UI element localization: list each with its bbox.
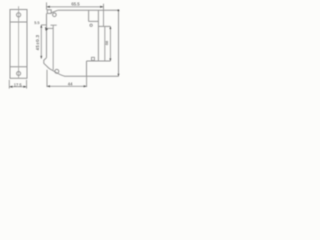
arrowheads 44 dim (47, 85, 50, 87)
screw hole circle (90, 24, 92, 26)
svg-text:44: 44 (68, 82, 73, 87)
cavity wall lower (104, 26, 106, 61)
toggle pivot circle (53, 13, 57, 17)
tiny square detail (92, 57, 95, 60)
terminal wall x=98.4 (97, 10, 99, 61)
5.5 dim line (41, 24, 46, 26)
top hole circle (17, 13, 21, 17)
vertical centerline (18, 6, 20, 78)
svg-text:17.5: 17.5 (14, 82, 23, 87)
step line y=26.4 (98, 25, 110, 27)
top face (58, 9, 119, 11)
rear step vertical (86, 61, 88, 76)
arrowheads height dim x=118.5 (117, 9, 119, 11)
small circle on bottom outline (55, 69, 59, 73)
rear step horizontal (87, 60, 111, 62)
toggle lever rectangle (47, 10, 51, 14)
svg-text:5.5: 5.5 (34, 21, 39, 25)
bottom-left curved outline (47, 66, 65, 76)
extension line left for 17.5 (8, 80, 10, 89)
extension line left of 65.5 dim (46, 2, 48, 9)
svg-text:45±0.3: 45±0.3 (35, 34, 40, 50)
inner vertical dim line (109, 26, 111, 61)
right edge / height dim line (118, 10, 120, 76)
front (left) face (46, 13, 48, 57)
svg-text:68: 68 (105, 41, 109, 45)
interior step line (47, 27, 54, 29)
clip channel top line (51, 24, 57, 26)
arrowheads inner vertical dim x=110.4 (109, 26, 111, 29)
dimension line 17.5 (9, 86, 26, 88)
arrowheads 65.5 (47, 6, 50, 8)
bottom separator line (10, 66, 27, 68)
arrowheads vertical dim x=41.3 (40, 25, 42, 28)
terminal notch bottom (89, 20, 99, 22)
vertical dim line x=41.3 (40, 25, 42, 59)
DIN clip bump (44, 58, 47, 66)
extension line right for 17.5 (26, 80, 28, 89)
44 dim extension left (46, 70, 48, 87)
terminal notch wall left (88, 10, 90, 21)
bottom hole circle (17, 72, 21, 76)
dimension line 65.5 (47, 6, 104, 8)
body outline front view (10, 10, 27, 79)
svg-text:65.5: 65.5 (71, 2, 80, 7)
arrowheads 5.5 (45, 27, 48, 31)
44 dim extension right (86, 77, 88, 88)
clip channel vertical (52, 25, 54, 70)
top separator line (10, 21, 27, 23)
extension / cavity wall x=103.5 (103, 4, 105, 27)
bottom line + height extension (64, 75, 118, 77)
sloped top left face (51, 10, 57, 13)
44 dim line (47, 85, 87, 87)
arrowheads 17.5 (9, 86, 12, 88)
